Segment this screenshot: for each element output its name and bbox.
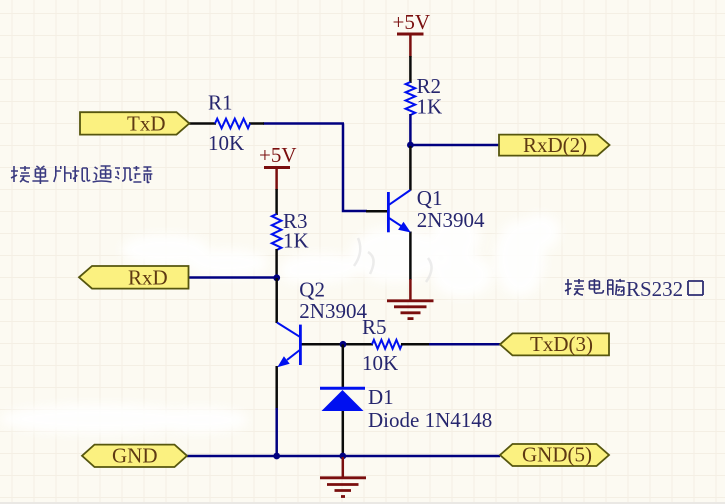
svg-text:Q1: Q1 — [417, 186, 443, 210]
char 接 — [565, 279, 584, 295]
char 机 — [72, 166, 90, 182]
char 通 — [93, 166, 112, 182]
svg-text:+5V: +5V — [393, 10, 431, 34]
annotation right: 接电脑RS232口 (drawn strokes + latin) — [565, 279, 625, 295]
resistor R2 — [406, 74, 443, 119]
port GND(5) — [500, 443, 609, 467]
svg-text:1K: 1K — [417, 95, 443, 119]
pin Q1 emitter — [409, 232, 412, 281]
pin +5V to R2 — [409, 56, 412, 83]
svg-text:+5V: +5V — [259, 143, 297, 167]
node junction RxD/R3/collector — [273, 274, 280, 281]
port RxD(2) — [499, 133, 610, 157]
port TxD — [80, 112, 189, 136]
svg-text:RxD(2): RxD(2) — [523, 133, 587, 157]
char 单 — [32, 166, 48, 184]
port GND — [82, 444, 187, 468]
svg-text:2N3904: 2N3904 — [299, 299, 367, 323]
watermark erased white smudges — [0, 214, 560, 434]
wire R2 to junction — [409, 114, 412, 146]
svg-text:RS232: RS232 — [626, 277, 683, 301]
pin +5V to R3 — [275, 189, 278, 215]
wire junction to RxD(2) port — [410, 144, 500, 147]
svg-text:TxD(3): TxD(3) — [530, 332, 593, 356]
watermark ghost strokes — [354, 238, 432, 282]
wire RxD port to junction — [189, 276, 278, 279]
svg-text:GND(5): GND(5) — [522, 443, 592, 467]
node junction D1/GND — [339, 453, 346, 460]
ground G2 — [320, 457, 366, 497]
resistor R3 — [272, 209, 309, 253]
svg-text:2N3904: 2N3904 — [417, 208, 485, 232]
svg-text:D1: D1 — [368, 385, 394, 409]
pin D1 bottom — [342, 410, 345, 456]
pin D1 top — [342, 344, 345, 388]
pin R1 right — [249, 122, 264, 125]
port RxD — [79, 266, 189, 290]
power +5V P2 — [259, 143, 297, 190]
char 脑 — [608, 279, 625, 295]
wire TxD horizontal — [263, 122, 344, 125]
svg-text:RxD: RxD — [128, 266, 168, 290]
svg-text:10K: 10K — [362, 351, 398, 375]
resistor R1 — [208, 91, 250, 156]
svg-text:Diode 1N4148: Diode 1N4148 — [368, 408, 492, 432]
svg-text:R5: R5 — [362, 315, 387, 339]
pin Q1 base — [366, 210, 388, 213]
wire Q2 base junction to R5 — [343, 343, 373, 346]
node junction base/R5/D1 — [340, 341, 347, 348]
diode D1 — [320, 385, 492, 432]
wire R5 to TxD(3) port — [429, 343, 500, 346]
transistor Q1 — [388, 186, 485, 233]
char 接 — [11, 166, 30, 182]
node junction Q2 emitter/GND — [273, 453, 280, 460]
resistor R5 — [362, 315, 402, 375]
node junction R2/collector — [407, 142, 414, 149]
wire GND bus — [187, 455, 500, 458]
pin TxD port to R1 — [189, 122, 216, 125]
pin Q2 emitter to GND wire — [275, 366, 278, 410]
wire corner to Q1 base — [343, 124, 367, 212]
char 端 — [133, 166, 152, 183]
svg-text:R1: R1 — [208, 91, 233, 115]
char 口 — [688, 281, 703, 295]
char 讯 — [115, 168, 132, 181]
power +5V P1 — [393, 10, 431, 57]
pin Q2 base — [300, 343, 343, 346]
pin R5 right — [401, 343, 430, 346]
svg-text:GND: GND — [112, 444, 158, 468]
bottom edge shadow — [0, 502, 725, 504]
port TxD(3) — [500, 332, 609, 356]
annotation left: 接单片机通讯端 (drawn strokes) — [11, 166, 152, 184]
svg-text:10K: 10K — [208, 131, 244, 155]
transistor Q2 — [277, 278, 367, 368]
pin Q1 collector — [409, 146, 412, 191]
svg-text:TxD: TxD — [127, 112, 166, 136]
wire R3 to RxD junction — [275, 249, 278, 278]
ground G1 — [387, 279, 434, 319]
svg-text:1K: 1K — [283, 229, 309, 253]
char 电 — [589, 279, 603, 293]
svg-text:Q2: Q2 — [299, 278, 325, 302]
pin Q2 collector — [275, 278, 278, 323]
char 片 — [54, 166, 71, 182]
